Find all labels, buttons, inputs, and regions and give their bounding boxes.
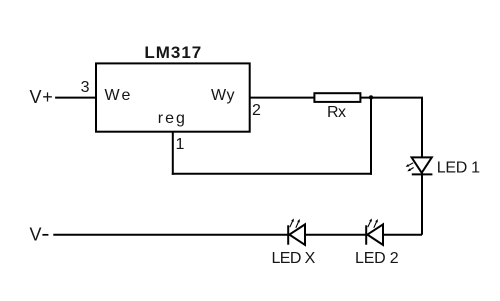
svg-text:LED 1: LED 1 — [437, 160, 480, 177]
wire junction down to reg feedback — [370, 98, 372, 175]
wire output down through LED 1 — [421, 98, 423, 235]
LED DX LED X — [288, 218, 305, 245]
svg-text:Wy: Wy — [211, 87, 235, 104]
LED D1 LED 1 — [406, 157, 433, 174]
junction dot — [369, 95, 373, 99]
svg-text:LED X: LED X — [272, 250, 316, 267]
svg-text:V: V — [30, 225, 42, 245]
wire V- bottom rail — [53, 234, 422, 236]
wire V+ to pin 3 — [55, 97, 96, 99]
wire pin 2 to resistor Rx — [250, 97, 315, 99]
svg-text:2: 2 — [252, 102, 261, 119]
LED D2 LED 2 — [366, 218, 383, 245]
svg-text:reg: reg — [158, 110, 187, 127]
svg-text:V+: V+ — [30, 87, 54, 107]
wire resistor Rx to corner — [360, 97, 423, 99]
wire pin 1 down — [172, 132, 174, 175]
svg-text:1: 1 — [176, 136, 185, 153]
svg-text:Rx: Rx — [327, 104, 346, 121]
svg-text:We: We — [105, 87, 133, 104]
regulator IC U1 LM317 body — [96, 63, 250, 131]
resistor Rx — [314, 93, 360, 102]
svg-text:LM317: LM317 — [144, 43, 202, 62]
svg-text:3: 3 — [81, 79, 90, 96]
svg-text:LED 2: LED 2 — [355, 250, 399, 267]
wire feedback horizontal — [172, 173, 372, 175]
